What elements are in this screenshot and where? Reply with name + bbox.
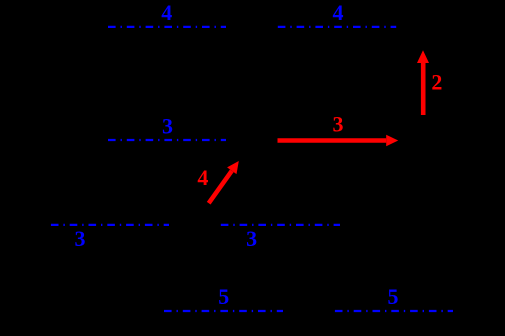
level line L1 (top-left), dash-dot blue — [108, 26, 226, 28]
svg-text:2: 2 — [431, 70, 442, 95]
red horizontal arrow (middle level to the right) — [278, 135, 399, 147]
svg-text:5: 5 — [388, 284, 399, 309]
svg-text:3: 3 — [246, 226, 257, 251]
level line L5 (lower-middle), dash-dot blue — [221, 224, 340, 226]
level line L4 (lower-left), dash-dot blue — [51, 224, 169, 226]
level line L7 (bottom-right), dash-dot blue — [335, 310, 453, 312]
svg-text:4: 4 — [161, 0, 172, 25]
red diagonal arrow (lower level up to middle level) — [209, 161, 239, 203]
level line L3 (middle-left), dash-dot blue — [108, 139, 226, 141]
red vertical arrow (up to top level) — [417, 50, 429, 115]
svg-text:5: 5 — [218, 284, 229, 309]
level line L6 (bottom-left), dash-dot blue — [164, 310, 283, 312]
level line L2 (top-right), dash-dot blue — [278, 26, 396, 28]
svg-text:3: 3 — [75, 226, 86, 251]
svg-text:4: 4 — [197, 165, 208, 190]
svg-text:4: 4 — [333, 0, 344, 25]
svg-text:3: 3 — [333, 112, 344, 137]
svg-text:3: 3 — [162, 114, 173, 139]
